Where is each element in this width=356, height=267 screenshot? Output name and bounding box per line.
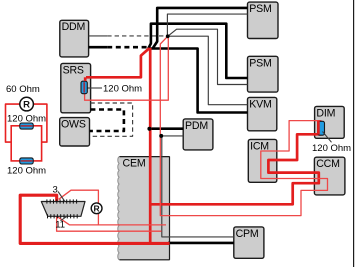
- DLC diagnostic connector body: [41, 202, 85, 217]
- svg-text:OWS: OWS: [61, 119, 86, 131]
- wire SRS-OWS thick dashed loop: [90, 110, 124, 132]
- module CPM: [234, 227, 264, 258]
- resistor 120 Ohm in DIM: [318, 121, 325, 136]
- svg-text:60 Ohm: 60 Ohm: [6, 84, 40, 95]
- leader line DIM resistor label: [323, 132, 332, 143]
- svg-text:120 Ohm: 120 Ohm: [7, 113, 46, 124]
- module PSM top: [248, 2, 279, 38]
- module SRS: [61, 63, 91, 112]
- module ICM: [248, 139, 276, 182]
- svg-text:CCM: CCM: [316, 158, 340, 170]
- wire CAN-H red thick: SRS entry: [86, 48, 149, 77]
- node PDM thick junction: [147, 127, 151, 131]
- wire CPM thick bus segment: [168, 242, 234, 245]
- DLC pin ticks bottom: [48, 214, 78, 218]
- wire node to PSM top thin: [167, 14, 247, 36]
- wire CPM thin to node: [162, 136, 234, 237]
- leader line SRS resistor label: [87, 87, 102, 89]
- svg-text:PSM: PSM: [249, 57, 271, 69]
- leader line pin 3: [58, 192, 65, 202]
- svg-text:120 Ohm: 120 Ohm: [7, 165, 46, 176]
- wire CAN-H red thick: main vertical drop: [149, 48, 152, 244]
- svg-text:DIM: DIM: [316, 107, 335, 119]
- module CCM: [314, 157, 345, 195]
- ohmmeter equivalent circuit: top wire: [6, 104, 20, 142]
- wire branch to PSM lower thick: [148, 24, 247, 78]
- wire CAN-H red thick: bottom loop to DLC pin3: [20, 195, 169, 243]
- svg-text:SRS: SRS: [63, 64, 84, 76]
- equivalent parallel resistor loop: [11, 126, 41, 161]
- module DIM: [315, 106, 345, 138]
- wire SRS-OWS thin dashed loop: [90, 103, 133, 136]
- wire CAN-L red thin: SRS resistor to node: [85, 37, 169, 101]
- node junction top: [166, 34, 170, 38]
- svg-text:CEM: CEM: [123, 157, 146, 169]
- wire CAN-L red thin: node descent loop CCM ICM DIM: [160, 36, 327, 215]
- wire DDM CAN-H thick (solid then dashed): [89, 46, 108, 49]
- node PDM thin junction: [159, 134, 163, 138]
- resistor 120 Ohm lower (equivalent circuit): [20, 158, 33, 164]
- wire PDM thin to node: [161, 135, 183, 137]
- module PDM: [183, 119, 213, 150]
- wire DDM CAN-L thin (solid then dashed to node): [89, 35, 108, 37]
- module OWS: [60, 118, 90, 146]
- module DDM: [60, 20, 89, 57]
- svg-text:R: R: [23, 100, 30, 111]
- svg-text:R: R: [94, 203, 100, 213]
- module KVM: [248, 97, 277, 130]
- wire red thin pin11 diagonal line: [57, 216, 166, 225]
- svg-text:CPM: CPM: [236, 228, 259, 240]
- wire red thin DLC pin3 to meter: [59, 190, 99, 203]
- ohmmeter equivalent circuit: right wire: [33, 104, 47, 142]
- svg-text:120 Ohm: 120 Ohm: [312, 143, 351, 154]
- wire main CAN-H bus to KVM: [148, 49, 248, 113]
- resistor 120 Ohm in SRS: [81, 77, 87, 93]
- wire PDM thick to bus junction: [149, 127, 183, 130]
- wire red thin meter to pin11 line: [97, 214, 99, 225]
- svg-text:KVM: KVM: [249, 98, 271, 110]
- module CEM (scalloped left edge): [118, 157, 170, 260]
- svg-text:PSM: PSM: [249, 3, 271, 15]
- wire red thin pin11 lower line: [57, 216, 162, 231]
- DLC pin ticks top: [47, 199, 77, 203]
- wire branch to PSM top thick: [153, 8, 248, 49]
- ohmmeter R (DLC measurement): [91, 203, 102, 214]
- ohmmeter R (60 Ohm): [20, 97, 34, 111]
- svg-text:PDM: PDM: [185, 120, 208, 132]
- svg-text:120 Ohm: 120 Ohm: [103, 84, 142, 95]
- leader line pin 11: [61, 216, 68, 221]
- wire node to PSM lower thin: [168, 29, 248, 84]
- resistor 120 Ohm upper (equivalent circuit): [20, 123, 33, 129]
- module PSM lower: [248, 56, 279, 92]
- frame border right: [353, 0, 355, 267]
- wire node to KVM thin: [168, 36, 248, 105]
- svg-text:11: 11: [55, 219, 65, 230]
- svg-text:DDM: DDM: [62, 21, 86, 33]
- wire CAN-H red thick: snake DIM-ICM-CCM to vertical: [150, 134, 321, 204]
- svg-text:3: 3: [53, 184, 58, 195]
